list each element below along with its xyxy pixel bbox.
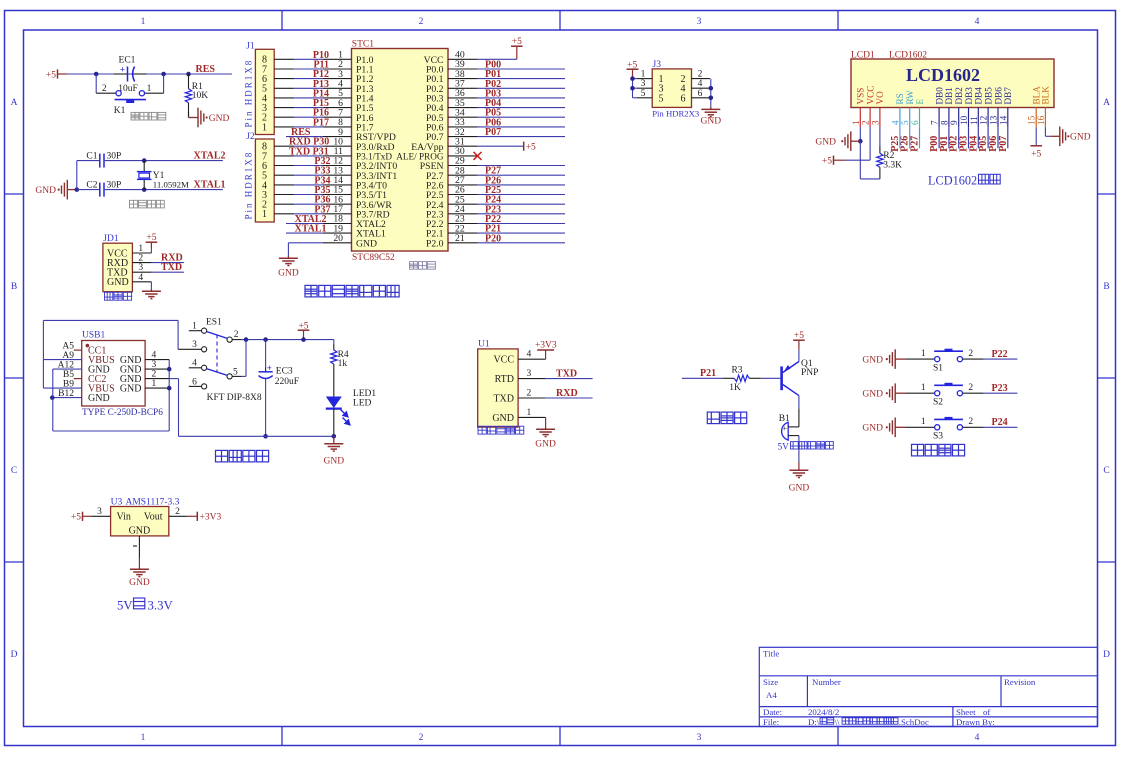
power +5 rail symbol xyxy=(298,329,310,331)
svg-text:BLK: BLK xyxy=(1041,86,1051,105)
connector J2 body xyxy=(255,139,274,222)
U1 pin stubs xyxy=(518,358,546,360)
node junction XTAL1/Y1 xyxy=(142,187,147,192)
wire VBUS left loop xyxy=(42,320,44,388)
svg-text:Sheet: Sheet xyxy=(956,707,976,717)
wire S2 right to P23 xyxy=(963,392,984,394)
wire K1 right leg xyxy=(163,74,165,93)
svg-text:D: D xyxy=(1103,650,1110,660)
node junctions J3 right xyxy=(709,86,714,91)
resistor R4 xyxy=(333,340,335,344)
svg-text:16: 16 xyxy=(1036,115,1046,125)
svg-text:+5: +5 xyxy=(146,233,156,243)
wire S2 left xyxy=(906,392,935,394)
pin 1 JD1 wire to +5 xyxy=(132,252,151,254)
svg-text:2: 2 xyxy=(419,733,424,743)
svg-text:GND: GND xyxy=(278,269,299,279)
connector J3 body xyxy=(652,69,691,108)
svg-text:30P: 30P xyxy=(107,180,122,190)
svg-text:DB6: DB6 xyxy=(993,87,1003,105)
svg-text:B: B xyxy=(11,282,17,292)
wire GND A12 xyxy=(53,368,82,370)
svg-text:4: 4 xyxy=(152,350,157,360)
svg-text:VCC: VCC xyxy=(865,86,875,105)
wire XTAL2 row xyxy=(77,160,99,162)
wire U1 VCC to +3V3 xyxy=(545,350,547,359)
svg-text:3: 3 xyxy=(641,79,646,89)
svg-text:LED: LED xyxy=(353,399,372,409)
svg-text:GND: GND xyxy=(862,356,883,366)
svg-text:TYPE C-250D-BCP6: TYPE C-250D-BCP6 xyxy=(82,408,163,418)
button S3 xyxy=(935,425,940,430)
power +5 reset xyxy=(57,69,59,78)
pin 2 JD1 wire RXD xyxy=(132,262,151,264)
node junction EC1 left xyxy=(94,72,99,77)
wire +5 to Vin xyxy=(91,515,110,517)
svg-text:P17: P17 xyxy=(313,117,329,128)
svg-text:3: 3 xyxy=(192,340,197,350)
svg-text:2024/8/2: 2024/8/2 xyxy=(808,707,839,717)
label danpianji xyxy=(410,262,436,270)
wire J3 right column xyxy=(692,78,710,80)
svg-text:U3: U3 xyxy=(111,497,123,507)
gnd rail bottom xyxy=(179,435,334,437)
wire XTAL1 row xyxy=(77,189,99,191)
wire K1 left leg xyxy=(95,74,97,93)
svg-text:DB0: DB0 xyxy=(934,87,944,105)
wire R3 to Q1 base xyxy=(761,377,780,379)
svg-text:RES: RES xyxy=(196,64,216,75)
svg-text:2: 2 xyxy=(419,17,424,27)
svg-text:Vin: Vin xyxy=(117,512,131,523)
ground at U3 xyxy=(138,567,140,569)
svg-text:11: 11 xyxy=(969,116,979,125)
svg-text:LED1: LED1 xyxy=(353,389,376,399)
svg-text:DB2: DB2 xyxy=(954,87,964,105)
button S2 xyxy=(935,391,940,396)
ground at power rail xyxy=(333,436,335,441)
svg-text:3: 3 xyxy=(870,120,880,125)
ground at JD1 xyxy=(150,289,152,291)
svg-text:Pin HDR1X8: Pin HDR1X8 xyxy=(244,59,254,128)
capacitor EC1 xyxy=(114,73,127,75)
svg-text:Size: Size xyxy=(763,677,778,687)
svg-text:+5: +5 xyxy=(822,157,832,167)
svg-text:1: 1 xyxy=(147,84,152,94)
svg-text:+: + xyxy=(267,363,272,373)
svg-text:P07: P07 xyxy=(998,136,1009,152)
wire S1 right to P22 xyxy=(963,358,984,360)
wires J1 to MCU rows P10-P17 xyxy=(274,58,294,60)
svg-text:DB7: DB7 xyxy=(1003,87,1013,105)
svg-text:J2: J2 xyxy=(246,132,255,142)
svg-text:12: 12 xyxy=(979,115,989,125)
caption danpianji zuixiao xitong xyxy=(305,285,399,297)
svg-text:J1: J1 xyxy=(246,41,255,51)
svg-text:Drawn By:: Drawn By: xyxy=(956,717,995,727)
resistor R3 xyxy=(723,377,735,379)
svg-text:KFT DIP-8X8: KFT DIP-8X8 xyxy=(207,393,262,403)
connector USB1 body xyxy=(82,341,145,407)
svg-text:3: 3 xyxy=(527,369,532,379)
svg-text:1: 1 xyxy=(527,408,532,418)
svg-text:4: 4 xyxy=(698,79,703,89)
svg-text:GND: GND xyxy=(492,413,514,424)
svg-text:+: + xyxy=(120,65,125,75)
svg-text:4: 4 xyxy=(890,120,900,125)
regulator U3 body xyxy=(111,507,169,536)
LCD pin stubs xyxy=(859,108,861,128)
caption dianyuan dianlu xyxy=(216,450,269,462)
svg-text:5: 5 xyxy=(233,367,238,377)
svg-text:B5: B5 xyxy=(63,370,74,380)
svg-text:10K: 10K xyxy=(192,91,209,101)
wire Q1 emitter to +5 xyxy=(798,350,800,362)
svg-text:P20: P20 xyxy=(485,233,501,244)
svg-text:1: 1 xyxy=(921,417,926,427)
node junction R1 top xyxy=(186,72,191,77)
ground GND at R1 xyxy=(188,112,190,118)
net label P21 wire xyxy=(682,377,723,379)
svg-text:+5: +5 xyxy=(1031,149,1041,159)
svg-text:AMS1117-3.3: AMS1117-3.3 xyxy=(126,497,180,507)
svg-text:5: 5 xyxy=(641,89,646,99)
svg-text:+3V3: +3V3 xyxy=(535,341,557,351)
capacitor C1 xyxy=(99,154,101,168)
svg-text:R3: R3 xyxy=(731,365,742,375)
label xueya chuanganqi xyxy=(478,426,524,434)
svg-text:Pin HDR1X8: Pin HDR1X8 xyxy=(244,151,254,220)
wire VSS pin1 to gnd xyxy=(859,127,861,141)
svg-text:XTAL2: XTAL2 xyxy=(194,151,226,162)
svg-text:GND: GND xyxy=(324,457,345,467)
svg-text:GND: GND xyxy=(815,138,836,148)
wire S3 left xyxy=(906,426,935,428)
svg-text:2: 2 xyxy=(175,507,180,517)
svg-text:USB1: USB1 xyxy=(82,331,105,341)
svg-text:XTAL1: XTAL1 xyxy=(194,179,226,190)
wire BLA pin15 to +5 xyxy=(1035,127,1037,146)
svg-text:RTD: RTD xyxy=(495,374,514,385)
svg-text:14: 14 xyxy=(998,115,1008,125)
svg-text:+5: +5 xyxy=(526,143,536,153)
wire S1 left xyxy=(906,358,935,360)
svg-text:1: 1 xyxy=(921,349,926,359)
label xiazaikou xyxy=(105,292,132,300)
svg-text:10: 10 xyxy=(959,115,969,125)
svg-text:3: 3 xyxy=(152,360,157,370)
pin 4 JD1 wire to ground xyxy=(132,281,151,283)
wire U1 TXD RXD net xyxy=(546,397,593,399)
wire S3 right to P24 xyxy=(963,426,984,428)
svg-text:LCD1: LCD1 xyxy=(851,50,875,60)
svg-text:+5: +5 xyxy=(46,70,56,80)
wire R2 bottom loop to gnd xyxy=(879,175,881,179)
power +3V3 at U3 xyxy=(196,512,198,521)
svg-text:1: 1 xyxy=(152,379,157,389)
wire GND B12 xyxy=(52,397,81,399)
caption fengmingqi xyxy=(707,412,746,424)
svg-text:P21: P21 xyxy=(700,368,716,379)
wire BLK pin16 to gnd xyxy=(1044,127,1046,136)
svg-text:1K: 1K xyxy=(729,383,741,393)
svg-text:GND: GND xyxy=(862,390,883,400)
ground below MCU xyxy=(287,256,289,258)
svg-text:JD1: JD1 xyxy=(103,234,119,244)
svg-text:EC1: EC1 xyxy=(119,55,136,65)
svg-text:GND: GND xyxy=(129,525,151,536)
caption duli anjian xyxy=(912,444,965,456)
svg-text:2: 2 xyxy=(152,369,157,379)
svg-text:VCC: VCC xyxy=(493,355,514,366)
svg-text:VO: VO xyxy=(875,91,885,105)
wire GND left loop xyxy=(52,369,54,431)
svg-text:5: 5 xyxy=(900,120,910,125)
wire buzzer to gnd xyxy=(798,436,800,462)
svg-text:9: 9 xyxy=(949,120,959,125)
svg-text:4: 4 xyxy=(975,733,980,743)
svg-text:S1: S1 xyxy=(933,363,943,373)
ground at LCD VSS xyxy=(851,140,861,142)
svg-text:ES1: ES1 xyxy=(206,318,222,328)
wire XTAL1 row 19 xyxy=(286,232,323,234)
svg-text:+5: +5 xyxy=(298,321,308,331)
svg-text:4: 4 xyxy=(527,350,532,360)
svg-text:Vout: Vout xyxy=(144,512,163,523)
wire USB gnd row2 crossing to rail xyxy=(169,378,178,380)
wire +5 to RES node xyxy=(67,73,232,75)
svg-text:C2: C2 xyxy=(86,180,97,190)
switch ES1 gang dashed link xyxy=(216,335,218,372)
svg-text:of: of xyxy=(983,707,990,717)
svg-text:D: D xyxy=(11,650,18,660)
svg-text:2: 2 xyxy=(968,349,973,359)
svg-text:Pin HDR2X3: Pin HDR2X3 xyxy=(652,108,699,118)
svg-text:S3: S3 xyxy=(933,432,943,442)
svg-text:+5: +5 xyxy=(512,37,522,47)
button S1 xyxy=(935,357,940,362)
svg-text:GND: GND xyxy=(129,578,150,588)
svg-text:A5: A5 xyxy=(62,341,74,351)
svg-text:1: 1 xyxy=(138,244,143,254)
USB right stubs xyxy=(145,359,169,361)
svg-text:STC1: STC1 xyxy=(352,40,374,50)
resistor R2 xyxy=(879,127,881,146)
svg-text:5: 5 xyxy=(659,93,664,104)
resistor R1 xyxy=(188,74,190,89)
wire gnd vertical to C1 xyxy=(76,161,78,190)
label jingzhen dianlu xyxy=(130,200,165,208)
svg-text:DB3: DB3 xyxy=(964,87,974,105)
wire U3 GND pin down xyxy=(138,536,140,559)
svg-text:1: 1 xyxy=(262,209,267,220)
svg-text:1k: 1k xyxy=(338,359,348,369)
svg-text:D:\: D:\ xyxy=(808,717,820,727)
svg-text:A: A xyxy=(11,98,18,108)
svg-text:STC89C52: STC89C52 xyxy=(352,253,395,263)
svg-text:3: 3 xyxy=(97,507,102,517)
wire J3 left column xyxy=(632,79,634,98)
svg-text:R2: R2 xyxy=(883,151,894,161)
LCD LCD1 body xyxy=(851,59,1054,108)
svg-text:6: 6 xyxy=(698,89,703,99)
svg-text:S2: S2 xyxy=(933,397,943,407)
svg-text:A4: A4 xyxy=(766,690,777,700)
svg-text:7: 7 xyxy=(930,120,940,125)
ground at U1 xyxy=(545,417,547,427)
svg-text:2: 2 xyxy=(861,120,871,125)
connector J1 body xyxy=(255,49,274,134)
svg-text:VSS: VSS xyxy=(856,88,866,105)
svg-text:P23: P23 xyxy=(992,383,1008,394)
svg-text:LCD1602: LCD1602 xyxy=(928,174,977,188)
svg-text:J3: J3 xyxy=(653,60,662,70)
ground at LCD BLK xyxy=(1050,135,1060,137)
node junction EC1 right xyxy=(161,72,166,77)
border column ticks bottom xyxy=(281,727,283,746)
node junction XTAL2/Y1 xyxy=(142,158,147,163)
svg-text:GND: GND xyxy=(862,424,883,434)
svg-text:13: 13 xyxy=(989,115,999,125)
svg-text:ALE/ PROG: ALE/ PROG xyxy=(396,152,444,162)
svg-text:GND: GND xyxy=(535,440,556,450)
svg-text:1: 1 xyxy=(141,17,146,27)
svg-text:+5: +5 xyxy=(71,513,81,523)
wire switch out to +5 rail xyxy=(232,339,242,341)
capacitor EC3 xyxy=(263,337,268,342)
svg-text:GND: GND xyxy=(789,484,810,494)
wire throw5 up to rail xyxy=(232,375,242,377)
svg-text:P27: P27 xyxy=(910,136,921,152)
svg-text:2: 2 xyxy=(138,254,143,264)
svg-text:GND: GND xyxy=(701,117,722,127)
svg-text:3.3V: 3.3V xyxy=(148,598,174,612)
svg-text:.SchDoc: .SchDoc xyxy=(899,717,929,727)
switch ES1 contacts xyxy=(206,332,227,339)
svg-text:4: 4 xyxy=(138,273,143,283)
MCU U:STC1 body xyxy=(352,49,449,252)
capacitor C2 xyxy=(99,183,101,197)
MCU left pin stubs xyxy=(323,58,352,60)
wire VBUS B9 xyxy=(43,387,81,389)
svg-text:GND: GND xyxy=(35,186,56,196)
svg-text:File:: File: xyxy=(763,717,779,727)
svg-text:2: 2 xyxy=(234,330,239,340)
svg-text:U1: U1 xyxy=(478,340,490,350)
border row ticks left xyxy=(5,193,24,195)
wire U1 RTD TXD net xyxy=(546,378,593,380)
svg-text:LCD1602: LCD1602 xyxy=(889,50,927,60)
svg-text:5V: 5V xyxy=(778,442,790,452)
svg-text:11.0592M: 11.0592M xyxy=(153,179,189,189)
svg-text:6: 6 xyxy=(681,93,686,104)
wires J2 to MCU rows xyxy=(274,145,294,147)
svg-text:3: 3 xyxy=(697,733,702,743)
svg-text:2: 2 xyxy=(102,84,107,94)
border row ticks right xyxy=(1098,193,1116,195)
svg-text:RS: RS xyxy=(895,93,905,104)
svg-text:1: 1 xyxy=(921,383,926,393)
svg-text:6: 6 xyxy=(192,377,197,387)
MCU right pin stubs rows xyxy=(448,58,477,60)
svg-text:RW: RW xyxy=(905,90,915,105)
connector JD1 body xyxy=(103,243,132,292)
svg-text:TXD: TXD xyxy=(161,262,182,273)
svg-text:GND: GND xyxy=(120,384,142,395)
svg-text:1: 1 xyxy=(851,120,861,125)
svg-text:4: 4 xyxy=(975,17,980,27)
LCD pin7-14 wires xyxy=(938,127,940,148)
ground below buzzer xyxy=(798,468,800,470)
svg-text:P2.0: P2.0 xyxy=(426,238,444,249)
pin 3 JD1 wire TXD xyxy=(132,271,151,273)
LED LED1 xyxy=(333,370,335,397)
svg-text:P22: P22 xyxy=(992,349,1008,360)
svg-text:+5: +5 xyxy=(794,331,804,341)
wire VBUS A9 xyxy=(43,359,81,361)
pin A5 stub xyxy=(74,349,82,351)
svg-text:5V: 5V xyxy=(117,598,133,612)
svg-text:4: 4 xyxy=(192,359,197,369)
svg-text:C1: C1 xyxy=(86,152,97,162)
svg-text:1: 1 xyxy=(141,733,146,743)
svg-text:3: 3 xyxy=(697,17,702,27)
label anjian fuwei xyxy=(131,112,166,120)
svg-text:2: 2 xyxy=(698,70,703,80)
svg-text:3: 3 xyxy=(138,263,143,273)
svg-text:B: B xyxy=(1103,282,1109,292)
svg-text:A: A xyxy=(1103,98,1110,108)
svg-text:GND: GND xyxy=(356,238,377,249)
svg-text:Revision: Revision xyxy=(1004,677,1036,687)
svg-text:TXD: TXD xyxy=(493,394,514,405)
svg-text:+3V3: +3V3 xyxy=(200,513,222,523)
svg-text:6: 6 xyxy=(910,120,920,125)
svg-text:PNP: PNP xyxy=(801,368,818,378)
svg-text:2: 2 xyxy=(968,417,973,427)
svg-text:30P: 30P xyxy=(107,152,122,162)
border column ticks top xyxy=(281,11,283,31)
wire PSEN pin29 xyxy=(477,165,565,167)
svg-text:DB4: DB4 xyxy=(974,87,984,105)
ground GND crystal xyxy=(67,189,77,191)
wire USB gnd vertical xyxy=(168,360,170,431)
title block frame xyxy=(759,647,1097,726)
wire RES row 9 xyxy=(286,136,323,138)
svg-text:C: C xyxy=(1103,466,1109,476)
no-ERC cross pin30 xyxy=(474,152,482,160)
wires P00-P07 right of MCU xyxy=(477,68,565,70)
LCD pin4-6 wires xyxy=(899,127,901,148)
svg-text:P24: P24 xyxy=(992,417,1008,428)
wire VCC pin2 to +5 xyxy=(869,127,871,160)
crystal Y1 xyxy=(143,161,145,172)
svg-text:8: 8 xyxy=(939,120,949,125)
wire XTAL2 row 18 xyxy=(286,223,323,225)
wire VCC pin40 to +5 xyxy=(477,58,516,60)
wire Vout to +3V3 xyxy=(169,515,188,517)
svg-text:\\: \\ xyxy=(835,717,840,727)
ground at J3 xyxy=(710,107,712,108)
pin B5 stub xyxy=(74,378,82,380)
power +5 at LCD xyxy=(833,156,835,165)
node junction crystal gnd xyxy=(75,187,80,192)
power +5 at U3 xyxy=(82,512,84,521)
wire EA/Vpp pin31 to +5 xyxy=(477,145,523,147)
svg-text:1: 1 xyxy=(262,122,267,133)
svg-text:DB5: DB5 xyxy=(983,87,993,105)
svg-text:DB1: DB1 xyxy=(944,87,954,105)
